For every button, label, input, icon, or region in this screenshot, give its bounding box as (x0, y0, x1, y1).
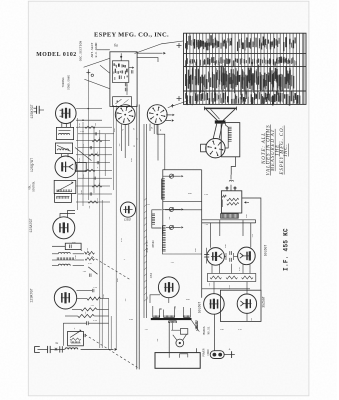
svg-text:35Z5GT: 35Z5GT (262, 296, 266, 308)
filter unit terminals (226, 187, 228, 191)
wire antenna line to chassis (81, 348, 114, 350)
svg-text:330: 330 (130, 157, 133, 162)
svg-text:15K: 15K (224, 243, 227, 248)
svg-text:VOL.: VOL. (29, 183, 32, 189)
main B+ bus pair (136, 105, 138, 370)
oscillator coil L3 (65, 243, 81, 249)
IF transformer winding B (162, 226, 165, 252)
svg-text:10K: 10K (98, 136, 101, 141)
svg-text:MAZDA: MAZDA (203, 326, 206, 334)
speaker cone (206, 109, 218, 120)
svg-text:CORD: CORD (207, 349, 210, 356)
svg-text:.25: .25 (204, 223, 209, 226)
dial cord diagonal to ladder (75, 148, 92, 161)
svg-text:330: 330 (129, 318, 134, 321)
wire V9 filament down (214, 314, 216, 351)
svg-text:50L6GT: 50L6GT (198, 302, 202, 314)
socket V1 pin leads (120, 124, 122, 151)
power cord loop (155, 353, 200, 369)
output stage bus upper (202, 219, 256, 221)
junction blob on top wire (120, 56, 122, 58)
socket V2 pin arrows (166, 114, 172, 116)
antenna trimmer box (68, 331, 84, 345)
wire bias row down (213, 282, 215, 294)
svg-text:POWER: POWER (202, 348, 205, 356)
svg-text:I.F. 455 KC: I.F. 455 KC (283, 228, 290, 271)
junction cross on oscillator rail (86, 71, 90, 73)
long B+ feed right (201, 170, 203, 298)
svg-text:12SQ7GT: 12SQ7GT (31, 158, 35, 172)
gang link dashed upper (80, 249, 130, 279)
pilot light PL1 (176, 339, 184, 347)
svg-text:.02: .02 (96, 197, 99, 202)
rectifier enclosure box (220, 290, 261, 321)
svg-text:.25: .25 (86, 247, 89, 252)
pilot dropping box (180, 329, 187, 335)
band switch wafer B (163, 208, 181, 210)
svg-text:MODEL 0102: MODEL 0102 (36, 52, 77, 58)
antenna series capacitor C18 (47, 346, 49, 353)
svg-text:+: + (228, 348, 230, 352)
svg-text:220: 220 (93, 286, 98, 289)
svg-text:CONTROL: CONTROL (33, 181, 36, 192)
chart inner border doubles (185, 33, 187, 104)
IF transformer winding A (152, 214, 155, 225)
dial lamp assembly (210, 351, 224, 359)
svg-text:455KC: 455KC (152, 240, 155, 248)
component value annotations (72, 122, 254, 341)
svg-text:.05: .05 (250, 317, 253, 322)
AVC ladder components (76, 126, 114, 203)
svg-text:.05: .05 (94, 122, 97, 127)
svg-text:OSC.SECTION: OSC.SECTION (79, 41, 83, 62)
svg-text:.25: .25 (174, 305, 177, 310)
tube socket V1 top view (115, 105, 135, 125)
svg-text:50L6GT: 50L6GT (264, 245, 268, 257)
wire V1 to 1st IF coupler (61, 123, 63, 127)
tube V7 output socket (207, 248, 225, 266)
output transformer T2 case (221, 123, 240, 157)
wire V3 plate up (60, 214, 75, 218)
svg-text:56K: 56K (113, 127, 116, 132)
coupling caps between V7 V8 (230, 251, 232, 255)
band switch box (163, 170, 202, 235)
dial lamp winding vertical (195, 321, 197, 330)
ballast secondary winding (169, 321, 177, 323)
dial cord diagonal left lower (84, 79, 110, 89)
svg-text:47K: 47K (238, 266, 241, 271)
speaker plug socket X1 (206, 139, 225, 158)
output transformer T2 winding (228, 127, 231, 142)
ballast core bar (151, 318, 192, 320)
svg-text:330: 330 (80, 189, 83, 194)
tube V4 envelope 12SK7 RF (54, 287, 76, 309)
wire Z2 to V2 (61, 154, 63, 157)
dial cord diagonal into case (100, 65, 110, 73)
heater bus twisted pair (143, 124, 145, 318)
svg-text:.01: .01 (170, 261, 175, 264)
coupling unit Z1 (56, 127, 73, 139)
tube V6 envelope detector (158, 277, 179, 298)
band switch wafer C (166, 226, 181, 228)
socket V2 pin leads (149, 124, 151, 131)
tube socket V2 top view (147, 105, 167, 125)
tube V1 grid stubs (60, 109, 63, 111)
speaker voice coil (215, 120, 226, 123)
filter unit case (221, 191, 241, 213)
svg-text:INC.: INC. (284, 144, 289, 158)
svg-text:68K: 68K (72, 241, 77, 244)
oscillator lower block (113, 97, 132, 107)
dial cord diagonal left upper (84, 58, 110, 67)
chart cell figures row 3 (185, 65, 294, 96)
loop antenna terminal (34, 107, 37, 109)
oscillator assembly case (110, 52, 137, 107)
antenna coil L1 (65, 348, 78, 350)
wires V7 V8 to bias row (211, 265, 213, 274)
svg-text:47K: 47K (88, 262, 93, 265)
svg-text:3x: 3x (55, 342, 59, 345)
svg-text:B.C.BAND: B.C.BAND (94, 42, 98, 57)
trimmer C13 (88, 267, 97, 274)
coupling unit Z2 (55, 143, 72, 154)
gang link dashed lower (85, 335, 138, 368)
wire filter to right bus (242, 198, 261, 245)
svg-text:2ND.I.F.: 2ND.I.F. (146, 240, 149, 253)
chart cell figures row 2 (185, 57, 297, 68)
antenna shunt capacitor C19 (59, 346, 61, 352)
bus rails left group (77, 118, 79, 210)
wire choke to filter (230, 185, 232, 191)
svg-text:COND.GANG: COND.GANG (67, 75, 70, 90)
svg-text:10K: 10K (102, 293, 105, 298)
band switch coil edge (162, 179, 165, 200)
chart cell figures row 4 (185, 91, 300, 106)
electrolytic capacitor C20 (224, 354, 229, 356)
filament ballast winding C (184, 315, 191, 317)
volume control R9 (54, 180, 76, 193)
on-off switch S1 on volume control (55, 194, 72, 203)
filter resistors (227, 198, 239, 201)
svg-text:.02: .02 (146, 203, 151, 206)
grid cap C15 (92, 289, 94, 292)
oscillator block arrow (132, 67, 134, 69)
svg-text:.01: .01 (82, 143, 85, 148)
wire socket V2 to chart corner (168, 101, 188, 108)
line plug P1 (34, 346, 36, 352)
svg-text:.05: .05 (82, 270, 87, 273)
svg-text:15K: 15K (74, 254, 77, 259)
tube V3 envelope 12SA7 (53, 217, 75, 239)
svg-text:68K: 68K (188, 192, 193, 195)
wire V4 cathode left (62, 323, 64, 346)
wire V6 to bus (168, 298, 170, 303)
svg-text:6.3V: 6.3V (196, 324, 199, 331)
tube V2 envelope 12SQ7 (55, 156, 77, 178)
dial cord diagonal right (135, 41, 184, 54)
wire oscillator to chart (137, 52, 163, 54)
resistor R14 (87, 297, 101, 300)
svg-text:TUNING: TUNING (62, 77, 65, 87)
bias resistors (210, 276, 222, 279)
speaker frame bar (205, 107, 237, 109)
svg-text:220: 220 (80, 130, 85, 133)
oscillator padder stack (125, 83, 127, 87)
chart cell figures row 1 (185, 35, 296, 51)
svg-text:NO.51: NO.51 (207, 326, 210, 334)
svg-text:12SA7GT: 12SA7GT (30, 218, 34, 232)
filament ballast winding A (153, 315, 160, 317)
svg-text:4SI: 4SI (150, 273, 153, 279)
bypass capacitor C16 (87, 321, 89, 325)
oscillator trimmer block (112, 61, 128, 83)
wire into oscillator case (97, 49, 110, 51)
svg-text:.05: .05 (208, 282, 211, 287)
wire rect box down (246, 313, 248, 321)
wire V1 plate to AVC rail (76, 108, 102, 110)
svg-text:220: 220 (228, 284, 231, 289)
cord loop inner stubs (168, 353, 170, 358)
filament ballast winding B (164, 315, 175, 317)
wires ballast to tubes (152, 306, 154, 317)
wire T2 secondary down (231, 157, 235, 175)
resistor R16 (78, 314, 95, 317)
svg-text:12SK7GT: 12SK7GT (31, 104, 35, 118)
tube V8 rectifier socket (238, 247, 256, 265)
svg-text:10K: 10K (245, 213, 248, 218)
band switch wafer A (163, 175, 181, 177)
tube V5 envelope top (120, 202, 135, 217)
service note text block (262, 125, 289, 176)
tube V10 rectifier envelope (237, 294, 256, 313)
filter arrow (244, 201, 246, 203)
svg-text:56K: 56K (116, 277, 119, 282)
wire voice coil to plug socket (213, 124, 217, 139)
svg-text:220: 220 (204, 193, 209, 196)
tube voltage chart frame (184, 33, 307, 104)
choke winding under filter (221, 214, 239, 219)
tube V9 output envelope (204, 294, 225, 315)
wire ballast to pilot circuit (191, 320, 199, 331)
svg-text:47K: 47K (238, 328, 243, 331)
chart tick marks left margin (177, 45, 182, 47)
svg-text:68K: 68K (186, 298, 191, 301)
svg-text:470: 470 (93, 319, 98, 322)
wire T2 to speaker (225, 123, 228, 128)
svg-text:6a: 6a (114, 43, 118, 48)
svg-text:15K: 15K (220, 328, 225, 331)
coil L4 winding (58, 252, 70, 254)
resistor R12 (85, 258, 94, 261)
svg-text:ESPEY MFG. CO., INC.: ESPEY MFG. CO., INC. (94, 31, 169, 38)
cathode cap left of V7 (204, 254, 209, 256)
svg-text:56K: 56K (82, 173, 85, 178)
svg-text:.01: .01 (251, 233, 254, 238)
speaker socket key tab (201, 144, 206, 152)
svg-text:470: 470 (78, 157, 81, 162)
svg-text:.02: .02 (144, 328, 149, 331)
coil L6 winding (58, 264, 70, 266)
coil L5 winding (57, 257, 74, 260)
resistor R15 (81, 308, 97, 311)
svg-text:470: 470 (120, 237, 123, 242)
svg-text:10K: 10K (194, 247, 197, 252)
svg-text:12SK7GT: 12SK7GT (31, 288, 35, 302)
svg-text:.01: .01 (90, 304, 95, 307)
chart column rules (186, 33, 188, 104)
padder capacitor C12 (85, 251, 94, 254)
bias resistor row frame (207, 272, 255, 274)
svg-text:47K: 47K (78, 122, 81, 127)
coupling box on ladder (75, 162, 86, 171)
svg-text:12SQ7: 12SQ7 (124, 219, 132, 222)
right bus down (260, 276, 262, 290)
tube V1 envelope 12SK7 (56, 103, 77, 124)
